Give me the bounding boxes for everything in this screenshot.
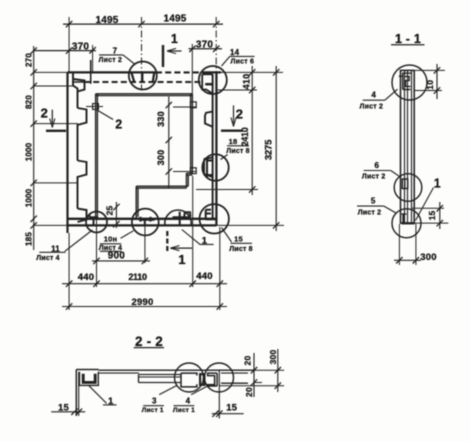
- svg-text:15: 15: [427, 211, 437, 221]
- svg-text:820: 820: [24, 95, 33, 109]
- svg-text:Лист 2: Лист 2: [360, 104, 384, 111]
- section 2-2: left 15 dim: [51, 411, 85, 413]
- svg-text:1495: 1495: [163, 14, 186, 25]
- svg-text:440: 440: [78, 272, 94, 283]
- svg-text:1 - 1: 1 - 1: [395, 32, 421, 46]
- circle 11 interior detail: [90, 216, 99, 218]
- svg-text:Лист 2: Лист 2: [99, 57, 123, 64]
- svg-text:5: 5: [371, 197, 376, 206]
- section 2-2: wall lines: [99, 369, 256, 371]
- plan: chain extension lines: [34, 85, 73, 87]
- svg-text:7: 7: [113, 47, 118, 56]
- label 15 / Лист 8: [222, 228, 232, 243]
- plan: 900 dim: [96, 219, 98, 287]
- plan: right wall faces with pilaster: [212, 74, 214, 219]
- arc interior detail: [179, 212, 181, 226]
- section 2-2: joint detail: [181, 373, 197, 375]
- svg-text:6: 6: [374, 161, 379, 170]
- svg-text:2110: 2110: [128, 272, 147, 282]
- svg-text:Лист 6: Лист 6: [231, 58, 255, 65]
- svg-text:Лист 2: Лист 2: [362, 173, 386, 180]
- svg-text:370: 370: [72, 41, 90, 52]
- plan: bottom wall: [68, 218, 217, 220]
- detail arc on bottom wall: [165, 210, 191, 225]
- svg-text:15: 15: [234, 234, 243, 243]
- svg-text:15: 15: [58, 402, 69, 413]
- svg-text:1: 1: [434, 177, 441, 191]
- svg-text:1495: 1495: [95, 15, 118, 26]
- plan: embedded plate marker right bottom: [190, 168, 196, 174]
- svg-text:4: 4: [186, 396, 191, 405]
- svg-text:3: 3: [152, 396, 157, 405]
- section 2-2: right portion lines: [221, 382, 248, 384]
- plan: overall 2990 dim: [62, 306, 227, 308]
- section 1-1: 300 dim at bottom: [398, 224, 400, 265]
- circle 5 interior bottom corner detail: [402, 214, 404, 224]
- plan: embedded plate marker left: [93, 104, 99, 110]
- svg-text:185: 185: [24, 232, 33, 246]
- svg-text:410: 410: [242, 74, 252, 90]
- plan: left vertical dimension chain: [33, 46, 35, 250]
- svg-text:2410: 2410: [240, 127, 250, 146]
- section 1-1 panel: [400, 69, 415, 71]
- detail circle 15: [200, 204, 229, 233]
- svg-text:Лист 2: Лист 2: [358, 210, 382, 217]
- svg-text:2: 2: [115, 117, 122, 131]
- circle 14 interior console detail: [202, 74, 212, 93]
- plan: 330/300 interior dim: [168, 97, 170, 189]
- svg-text:1000: 1000: [24, 142, 33, 161]
- detail circle 4: [392, 65, 427, 100]
- plan: top dimension line 1495+1495: [63, 23, 223, 25]
- svg-text:15: 15: [226, 403, 237, 414]
- svg-text:300: 300: [420, 252, 436, 263]
- svg-text:1: 1: [171, 32, 178, 46]
- circle 10 interior detail: [139, 219, 155, 221]
- circle 15 interior detail: [205, 210, 207, 220]
- plan: extension lines from top dims: [68, 17, 70, 72]
- plan: embedded plate marker right top: [190, 102, 196, 108]
- section 2-2: left post and channel: [75, 370, 77, 417]
- svg-text:1: 1: [108, 396, 114, 407]
- label 1 leader (left channel): [89, 386, 107, 404]
- detail circle B (4): [205, 363, 234, 392]
- svg-text:1: 1: [178, 252, 185, 267]
- plan: right side 410/2410 dim: [251, 66, 253, 195]
- plan: left 370 dim: [34, 50, 96, 52]
- svg-text:25: 25: [104, 206, 114, 216]
- plan: top wall inner face (dashed): [84, 81, 203, 83]
- detail circle 5: [392, 209, 421, 238]
- svg-text:Лист 8: Лист 8: [229, 246, 253, 253]
- plan: right 370 dim: [189, 48, 223, 50]
- circle 18 interior detail: [206, 159, 208, 178]
- svg-text:330: 330: [156, 111, 166, 127]
- svg-text:Лист 4: Лист 4: [36, 255, 60, 262]
- plan: inner opening outline (double line): [96, 93, 193, 95]
- circle 4 interior top joint detail: [403, 73, 411, 89]
- detail circle 11: [86, 212, 107, 233]
- svg-text:270: 270: [24, 53, 33, 67]
- plan: 25 dim at bottom left: [115, 202, 117, 228]
- label 11 / Лист 4: [65, 230, 93, 251]
- label 4 / Лист 1: [191, 386, 209, 395]
- plan: overall 3275 dim: [275, 66, 277, 231]
- plan: axis line right column: [215, 17, 217, 101]
- section 2-2: right 15 dim: [212, 413, 244, 415]
- svg-text:2 - 2: 2 - 2: [135, 334, 163, 349]
- detail circle 18: [202, 154, 228, 180]
- svg-text:10н: 10н: [104, 234, 117, 243]
- svg-text:440: 440: [196, 271, 212, 282]
- leader label 2: [98, 111, 113, 120]
- label 3 / Лист 1: [159, 386, 177, 395]
- svg-text:Лист 8: Лист 8: [226, 148, 250, 155]
- plan: top wall outer face: [34, 71, 68, 73]
- svg-text:14: 14: [230, 48, 240, 57]
- detail circle 6: [394, 174, 422, 202]
- plan: left wall outer face: [66, 72, 68, 233]
- section 2-2: right side 20/300/20 dims: [256, 369, 284, 371]
- plan: axis line left column: [141, 17, 143, 91]
- detail circle 14: [199, 66, 227, 94]
- svg-text:4: 4: [371, 90, 376, 99]
- detail circle 7: [129, 62, 157, 90]
- svg-text:300: 300: [268, 350, 278, 365]
- svg-text:1: 1: [202, 236, 208, 247]
- svg-text:2990: 2990: [132, 297, 154, 308]
- leader label 1 (element): [182, 230, 214, 245]
- plan: bottom chain 440/2110/440: [192, 176, 194, 287]
- svg-text:900: 900: [108, 251, 126, 262]
- svg-text:2: 2: [236, 106, 243, 121]
- detail circle A (3): [175, 363, 204, 392]
- svg-text:300: 300: [156, 150, 166, 166]
- section mark 1 (top): [162, 45, 164, 67]
- svg-text:20: 20: [243, 356, 253, 366]
- plan: inner outline notch and step: [186, 172, 192, 174]
- svg-text:370: 370: [196, 39, 214, 50]
- plan: left wall inner face with pilasters: [73, 72, 78, 108]
- circle 7 interior column detail: [132, 73, 135, 82]
- section 1-1: 10 dim at top: [415, 69, 445, 71]
- svg-text:20: 20: [244, 387, 254, 397]
- label 10н / Лист 4 with two bars: [121, 231, 134, 239]
- detail circle 10: [132, 209, 159, 236]
- section 1-1: 15 dim: [415, 222, 449, 224]
- svg-text:2: 2: [41, 106, 48, 121]
- plan: top-left corner detail: [90, 60, 92, 84]
- svg-text:18: 18: [229, 137, 238, 146]
- svg-text:Лист 1: Лист 1: [173, 407, 195, 414]
- svg-text:3275: 3275: [263, 139, 274, 160]
- section 2-2: inner leaf bar: [139, 374, 182, 376]
- circle 6 interior joint detail: [402, 179, 407, 189]
- svg-text:10: 10: [425, 80, 435, 90]
- svg-text:Лист 1: Лист 1: [142, 407, 164, 414]
- section mark 1 (bottom): [166, 231, 168, 252]
- svg-text:1000: 1000: [24, 188, 33, 207]
